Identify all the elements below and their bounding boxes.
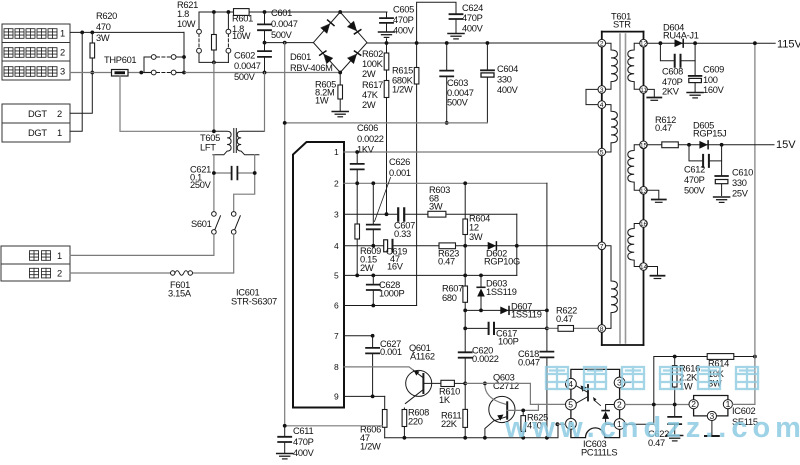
degauss coil row 1 text bbox=[4, 29, 65, 39]
svg-text:12: 12 bbox=[640, 41, 648, 48]
svg-text:160V: 160V bbox=[703, 85, 725, 95]
diode D605 bbox=[699, 141, 708, 149]
svg-text:C603: C603 bbox=[447, 78, 468, 88]
regulator IC602 SE115 bbox=[694, 396, 728, 416]
capacitor C611 with ground bbox=[277, 426, 293, 459]
node C601/C602 junction bbox=[263, 41, 267, 45]
wire: 115V feed vertical x754.9 (gray) bbox=[733, 43, 755, 404]
IC603 pin3 bbox=[614, 377, 625, 388]
resistor R620 bbox=[90, 32, 95, 72]
resistor R611 bbox=[463, 383, 468, 437]
capacitor C608 loop bbox=[660, 43, 695, 66]
svg-text:470P: 470P bbox=[393, 15, 414, 25]
svg-text:S601: S601 bbox=[191, 219, 212, 229]
optocoupler IC603 PC111LS body bbox=[571, 369, 620, 437]
capacitor C628 bbox=[367, 275, 380, 305]
bridge diode bottom-right bbox=[348, 51, 361, 64]
svg-text:1.8: 1.8 bbox=[177, 9, 189, 19]
resistor R609 bbox=[355, 183, 360, 275]
node pin2 x465.2 bbox=[463, 181, 467, 185]
T601 pin15 bbox=[640, 141, 648, 149]
watermark line 1 bbox=[546, 367, 758, 389]
T601 winding pin15-pin13 bbox=[628, 145, 640, 190]
node relay right bottom bbox=[182, 71, 186, 75]
node 115V x754.9 bbox=[753, 41, 757, 45]
svg-text:1: 1 bbox=[334, 147, 339, 157]
svg-text:3: 3 bbox=[600, 87, 604, 94]
switch S601 left pole bbox=[212, 212, 221, 235]
node 115V x660.4 bbox=[659, 41, 663, 45]
T601 pin16 bbox=[640, 220, 648, 228]
T601 pin2 bbox=[598, 39, 606, 47]
transistor Q603 C2712 bbox=[485, 383, 515, 437]
resistor R607 bbox=[463, 246, 468, 311]
capacitor C604 electrolytic bbox=[481, 43, 494, 123]
wire: x264.5 up to AC line (gray) bbox=[264, 73, 266, 132]
svg-text:C602: C602 bbox=[234, 51, 255, 61]
wire: pin4 line to T601 pin7 bbox=[344, 245, 598, 247]
svg-text:400V: 400V bbox=[393, 26, 415, 36]
svg-text:8: 8 bbox=[334, 362, 339, 372]
node pin2-line x674.7 bbox=[673, 403, 677, 407]
svg-text:12: 12 bbox=[469, 223, 479, 233]
svg-text:47K: 47K bbox=[362, 90, 379, 100]
wire: pin5 sub line y275.4 handled; diode D603 vertical bbox=[477, 275, 485, 310]
svg-text:C608: C608 bbox=[662, 67, 683, 77]
wire: x546.9 vertical pin2 chain bbox=[546, 183, 548, 437]
capacitor C620 bbox=[459, 310, 472, 383]
wire: IC603 pin6 stub bbox=[557, 423, 565, 425]
svg-text:LFT: LFT bbox=[200, 143, 216, 153]
svg-text:2W: 2W bbox=[362, 69, 376, 79]
svg-text:470P: 470P bbox=[462, 13, 483, 23]
resistor R606 bbox=[382, 396, 387, 437]
node pin1 line x357.2 bbox=[355, 150, 359, 154]
node rail R625 bbox=[521, 436, 525, 440]
node x516.8 on pin4 line bbox=[515, 244, 519, 248]
node y310.4 x546.9 bbox=[545, 309, 549, 313]
svg-text:400V: 400V bbox=[497, 85, 519, 95]
svg-text:500V: 500V bbox=[271, 30, 293, 40]
svg-text:250V: 250V bbox=[190, 180, 212, 190]
node C621 right bbox=[253, 171, 257, 175]
switch S601 right pole bbox=[231, 212, 240, 235]
node Q603 collector / R625 bbox=[521, 409, 525, 413]
transformer T605 LFT bbox=[234, 129, 237, 153]
IC602 pin1 bbox=[723, 400, 732, 409]
wire: pin9 line bbox=[344, 395, 385, 397]
T601 pin3 bbox=[598, 86, 606, 94]
svg-text:3W: 3W bbox=[469, 232, 483, 242]
svg-text:0.047: 0.047 bbox=[518, 358, 540, 368]
svg-text:470P: 470P bbox=[293, 437, 314, 447]
node on y32.4 at x82.2 bbox=[80, 31, 84, 35]
node C621 left bbox=[212, 171, 216, 175]
svg-text:6: 6 bbox=[334, 301, 339, 311]
IC603 pin1 bbox=[614, 419, 625, 430]
svg-text:PC111LS: PC111LS bbox=[581, 448, 617, 458]
svg-text:7: 7 bbox=[334, 331, 339, 341]
wire: x92.3 down to DGT2 bbox=[70, 73, 92, 114]
node R610 right bbox=[463, 382, 467, 386]
svg-text:22K: 22K bbox=[441, 419, 458, 429]
svg-text:RGP10G: RGP10G bbox=[484, 257, 520, 267]
svg-text:470P: 470P bbox=[684, 175, 705, 185]
resistor R610 bbox=[441, 380, 465, 386]
svg-text:3W: 3W bbox=[429, 202, 443, 212]
wire: x184 relay right column bbox=[183, 32, 185, 72]
svg-text:5: 5 bbox=[568, 400, 573, 410]
IC603 pin4 bbox=[566, 378, 577, 389]
wire: Q603 collector jog (gray) bbox=[507, 404, 538, 410]
svg-text:2: 2 bbox=[57, 109, 62, 119]
T601 pin4 bbox=[598, 101, 606, 109]
svg-text:0.0047: 0.0047 bbox=[271, 19, 298, 29]
node R621 bottom bbox=[212, 61, 216, 65]
svg-text:STR-S6307: STR-S6307 bbox=[231, 297, 277, 307]
node rail x487.4 bbox=[486, 41, 490, 45]
wire: pin8 line to Q601 (gray) bbox=[344, 367, 414, 370]
wire: pin7 line bbox=[344, 335, 372, 337]
svg-text:3: 3 bbox=[334, 209, 339, 219]
node pin7 x372.6 bbox=[371, 334, 375, 338]
node Q601-Q603 base junction bbox=[483, 382, 487, 386]
capacitor C622 with ground bbox=[667, 405, 683, 441]
svg-text:4: 4 bbox=[334, 241, 339, 251]
wire: AC line y72.5 (gray) bbox=[70, 72, 340, 74]
svg-text:A1162: A1162 bbox=[410, 352, 435, 362]
wire: T605 right bottom jog (gray) bbox=[234, 155, 255, 211]
node rail riser corner bbox=[556, 422, 560, 426]
svg-text:470P: 470P bbox=[662, 77, 683, 87]
svg-text:DGT: DGT bbox=[28, 109, 47, 119]
svg-text:R617: R617 bbox=[362, 80, 383, 90]
capacitor C617 bbox=[489, 323, 494, 334]
svg-text:5: 5 bbox=[600, 150, 604, 157]
bridge rectifier D601 diamond bbox=[313, 12, 367, 73]
node pin4 x465.2 bbox=[463, 244, 467, 248]
wire: y310.4 line bbox=[465, 309, 547, 311]
node AC line at x141.3 bbox=[139, 71, 143, 75]
node C603 bottom on rail bbox=[445, 121, 449, 125]
capacitor C605 with ground bbox=[379, 12, 395, 43]
relay contact upper (degauss relay) bbox=[144, 55, 184, 73]
resistor R625 bbox=[521, 410, 526, 437]
svg-text:2: 2 bbox=[334, 179, 339, 189]
resistor R608 bbox=[402, 408, 407, 438]
IC603 pin6 bbox=[566, 418, 577, 429]
node pin2 x373.3 bbox=[371, 181, 375, 185]
svg-text:C604: C604 bbox=[497, 64, 518, 74]
T601 winding pin7-pin8 bbox=[606, 246, 618, 329]
AC row 2 text bbox=[30, 268, 63, 278]
svg-text:220: 220 bbox=[408, 417, 423, 427]
wire: R610 node to IC603 pin5 (gray) bbox=[465, 383, 565, 404]
svg-text:1000P: 1000P bbox=[379, 289, 404, 299]
svg-text:10W: 10W bbox=[177, 19, 196, 29]
capacitor C607 bbox=[398, 208, 404, 220]
svg-text:C611: C611 bbox=[293, 426, 313, 436]
relay contact block around R621 : left column bbox=[197, 12, 229, 62]
fuse F601 bbox=[70, 271, 193, 276]
degauss coil row 3 text bbox=[4, 67, 65, 77]
capacitor C626 with pointer line bbox=[367, 178, 391, 246]
node pin4 x373.3 bbox=[371, 244, 375, 248]
svg-text:100P: 100P bbox=[498, 337, 519, 347]
svg-text:0.001: 0.001 bbox=[380, 347, 402, 357]
node y12 bridge top bbox=[338, 10, 342, 14]
wire: 115V output line bbox=[647, 42, 775, 44]
capacitor C602 bbox=[258, 43, 271, 73]
svg-text:16V: 16V bbox=[387, 262, 404, 272]
node C611 bbox=[283, 424, 287, 428]
T601 pin11 bbox=[640, 86, 648, 94]
transformer T601 frame bbox=[602, 32, 644, 345]
svg-text:1/2W: 1/2W bbox=[360, 442, 381, 452]
IC603 phototransistor bbox=[576, 385, 588, 403]
node rail x386.5 bbox=[385, 41, 389, 45]
svg-text:0.47: 0.47 bbox=[655, 123, 672, 133]
T601 pin13 bbox=[640, 187, 648, 195]
node T605 top-left junction bbox=[212, 129, 216, 133]
wire: degauss row1 to relay, y32.4 bbox=[70, 31, 184, 33]
pin14 ground bbox=[647, 267, 664, 279]
svg-text:1: 1 bbox=[57, 128, 62, 138]
node pin5 x357.2 bbox=[355, 274, 359, 278]
svg-text:2: 2 bbox=[617, 400, 622, 410]
svg-text:C601: C601 bbox=[271, 8, 292, 18]
node on y32.4 at x92.3 bbox=[90, 31, 94, 35]
svg-text:7: 7 bbox=[600, 243, 604, 250]
capacitor C624 with ground bbox=[417, 2, 464, 43]
wire: C617 line y328.4 bbox=[465, 327, 547, 329]
svg-text:0.0022: 0.0022 bbox=[357, 134, 384, 144]
node pin2-line x653.8 bbox=[652, 403, 656, 407]
svg-text:100: 100 bbox=[703, 75, 718, 85]
resistor R605 bbox=[338, 73, 343, 111]
wire: +310V rail y43 to T601 pin2 bbox=[367, 42, 598, 44]
svg-text:1/2W: 1/2W bbox=[392, 85, 413, 95]
wire: x213.9 from relay block down to T605 (gray) bbox=[213, 62, 215, 131]
svg-text:2W: 2W bbox=[360, 263, 374, 273]
resistor R621 bbox=[212, 12, 217, 62]
transformer T601 core bbox=[620, 34, 626, 343]
node y310.4 x481 bbox=[479, 309, 483, 313]
node pin5 x481 (D603 top) bbox=[479, 274, 483, 278]
svg-text:R602: R602 bbox=[362, 49, 383, 59]
T601 pin7 bbox=[598, 242, 606, 250]
svg-text:10W: 10W bbox=[232, 31, 251, 41]
svg-text:RU4A-J1: RU4A-J1 bbox=[663, 31, 699, 41]
diode D602 bbox=[488, 242, 497, 250]
wire: 15V line bbox=[647, 144, 774, 146]
wire: top AC line y12 bbox=[199, 11, 387, 13]
svg-text:400V: 400V bbox=[293, 448, 315, 458]
svg-text:1KV: 1KV bbox=[357, 145, 375, 155]
wire: bridge minus line y42.6 bbox=[265, 42, 314, 44]
relay contact lower bbox=[144, 70, 184, 75]
svg-text:500V: 500V bbox=[684, 186, 706, 196]
node rail C618 bbox=[545, 436, 549, 440]
svg-text:R607: R607 bbox=[442, 284, 463, 294]
T601 winding pin4-pin5 bbox=[606, 105, 618, 152]
svg-text:R615: R615 bbox=[392, 66, 413, 76]
svg-text:C605: C605 bbox=[393, 5, 414, 15]
node R614 right / 115V feed bbox=[753, 355, 757, 359]
IC603 pin5 bbox=[566, 399, 577, 410]
svg-text:www.cndzz..com: www.cndzz..com bbox=[504, 412, 800, 444]
node rail x446.7 bbox=[445, 41, 449, 45]
capacitor C619 electrolytic bbox=[384, 240, 393, 252]
wire: T605 left bottom to C621 (gray) bbox=[213, 155, 215, 211]
svg-text:RBV-406M: RBV-406M bbox=[290, 63, 333, 73]
svg-text:0.47: 0.47 bbox=[438, 257, 455, 267]
wire: IC603 pin1 to corner bbox=[625, 423, 654, 425]
node bridge bottom bbox=[338, 71, 342, 75]
capacitor C627 bbox=[366, 336, 379, 397]
resistor R623 bbox=[439, 243, 456, 249]
node rail Q603 emitter bbox=[483, 436, 487, 440]
svg-text:0.0047: 0.0047 bbox=[447, 88, 474, 98]
svg-text:1: 1 bbox=[57, 251, 62, 261]
IC603 pin3 stub bbox=[625, 382, 631, 384]
wire: pin2 line (gray) bbox=[344, 182, 547, 184]
resistor R615 bbox=[414, 43, 419, 306]
pin11 ground bbox=[647, 89, 661, 100]
svg-text:500V: 500V bbox=[447, 98, 469, 108]
node 115V x695.1 bbox=[693, 41, 697, 45]
transistor Q601 A1162 bbox=[405, 370, 441, 403]
wire: IC603 pin2 to IC602 (gray) bbox=[625, 404, 689, 406]
svg-text:470: 470 bbox=[96, 22, 111, 32]
wire: x284.7 vertical down to hot-ground rail (gray) bbox=[284, 43, 286, 426]
node R616 top bbox=[673, 355, 677, 359]
node 15V x689 bbox=[687, 143, 691, 147]
wire: pin1 line to T601 pin5 (gray) bbox=[344, 151, 598, 153]
svg-text:0.0022: 0.0022 bbox=[472, 354, 499, 364]
resistor R622 bbox=[558, 326, 574, 332]
node rail x416.6 bbox=[415, 41, 419, 45]
node rail left end bbox=[283, 121, 287, 125]
resistor R604 bbox=[463, 183, 468, 246]
capacitor C603 bbox=[440, 43, 453, 123]
svg-text:3: 3 bbox=[60, 67, 65, 77]
svg-text:3.15A: 3.15A bbox=[168, 289, 192, 299]
svg-text:2KV: 2KV bbox=[662, 87, 680, 97]
node rail R608 bbox=[403, 436, 407, 440]
svg-text:13: 13 bbox=[640, 188, 648, 195]
svg-text:2: 2 bbox=[57, 269, 62, 279]
svg-text:15: 15 bbox=[640, 142, 648, 149]
node R620 bottom on AC line bbox=[90, 71, 94, 75]
node pin2 x357.2 bbox=[355, 181, 359, 185]
op-amp/regulator IC601 STR-S6307 box bbox=[293, 142, 344, 408]
AC row 1 text bbox=[30, 251, 63, 261]
T601 winding pin12-pin11 bbox=[628, 43, 640, 89]
capacitor C606 bbox=[351, 152, 364, 183]
svg-text:C2712: C2712 bbox=[493, 381, 519, 391]
svg-text:115V: 115V bbox=[777, 39, 800, 51]
T601 winding pin16-pin14 bbox=[628, 224, 640, 267]
resistor R612 bbox=[662, 142, 679, 148]
svg-text:THP601: THP601 bbox=[104, 55, 136, 65]
svg-text:1: 1 bbox=[60, 29, 65, 39]
node y310.4 x465.2 bbox=[463, 309, 467, 313]
bridge diode top-left bbox=[321, 20, 334, 34]
svg-text:0.47: 0.47 bbox=[556, 314, 573, 324]
svg-text:R620: R620 bbox=[96, 11, 117, 21]
diode D607 bbox=[500, 307, 509, 315]
svg-text:STR: STR bbox=[613, 20, 631, 30]
svg-text:2: 2 bbox=[600, 41, 604, 48]
svg-text:C609: C609 bbox=[703, 65, 724, 75]
resistor R602 bbox=[384, 43, 389, 70]
IC602 pin2 bbox=[689, 400, 698, 409]
node pin3 x386.5 (R617 chain) bbox=[385, 212, 389, 216]
svg-text:0.0047: 0.0047 bbox=[234, 61, 261, 71]
svg-text:1SS119: 1SS119 bbox=[486, 287, 517, 297]
svg-text:1: 1 bbox=[726, 399, 731, 409]
svg-text:100K: 100K bbox=[362, 59, 384, 69]
wire: ground rail y437.8 bbox=[385, 424, 566, 438]
svg-text:1W: 1W bbox=[315, 96, 329, 106]
T601 pin14 bbox=[640, 263, 648, 271]
svg-text:R601: R601 bbox=[232, 14, 253, 24]
node y12 x264.5 bbox=[263, 10, 267, 14]
wire: pin3 line bbox=[344, 213, 517, 215]
wire: pin5 line bbox=[344, 274, 517, 276]
svg-text:T605: T605 bbox=[200, 133, 220, 143]
T601 pin5 bbox=[598, 148, 606, 156]
wire: x653.8 vertical and R614/R616 feed line bbox=[654, 357, 755, 425]
DGT connector box bbox=[2, 104, 70, 142]
pin13 ground bbox=[647, 190, 666, 202]
degauss coil row 2 text bbox=[4, 48, 65, 58]
resistor R614 bbox=[707, 354, 734, 360]
bridge diode bottom-left bbox=[320, 51, 333, 64]
T601 winding pin2-pin3 bbox=[606, 43, 618, 89]
svg-text:680: 680 bbox=[442, 293, 457, 303]
svg-text:3W: 3W bbox=[96, 33, 110, 43]
svg-text:RGP15J: RGP15J bbox=[693, 129, 726, 139]
node pin6 x373.3 bbox=[371, 304, 375, 308]
capacitor C601 bbox=[258, 12, 271, 43]
svg-text:DGT: DGT bbox=[28, 128, 47, 138]
svg-text:2: 2 bbox=[691, 399, 696, 409]
node y12 x228.4 bbox=[227, 10, 231, 14]
wire: pin3 chain vertical x516.8 bbox=[516, 214, 518, 275]
svg-text:0.001: 0.001 bbox=[389, 168, 411, 178]
wire: C611 node line y425.8 (gray) bbox=[285, 425, 383, 427]
capacitor C612 loop bbox=[689, 145, 722, 167]
svg-text:15V: 15V bbox=[776, 139, 796, 151]
svg-text:9: 9 bbox=[334, 392, 339, 402]
svg-text:16: 16 bbox=[640, 221, 648, 228]
IC602 pin3 bbox=[707, 411, 716, 420]
node y328.4 x465.2 bbox=[463, 327, 467, 331]
wire: R622 line to T601 pin8 (gray) bbox=[547, 327, 598, 329]
svg-text:400V: 400V bbox=[462, 24, 484, 34]
svg-text:8: 8 bbox=[600, 326, 604, 333]
AC mains connector box bbox=[1, 246, 70, 281]
capacitor C609 electrolytic with ground bbox=[687, 61, 703, 98]
wire: hot ground rail y122.9 (gray) bbox=[285, 122, 488, 124]
resistor R617 bbox=[384, 70, 389, 214]
svg-text:2W: 2W bbox=[362, 100, 376, 110]
diode D604 bbox=[675, 39, 684, 47]
resistor R616 bbox=[672, 357, 677, 405]
thermistor THP601 bbox=[112, 70, 129, 77]
